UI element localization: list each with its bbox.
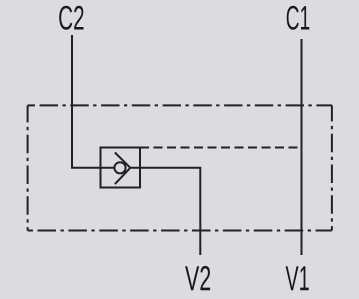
envelope top edge (dash-dot) — [28, 104, 332, 106]
port label V2 — [185, 266, 210, 290]
check valve ball — [114, 162, 125, 173]
port label V1 — [286, 266, 309, 290]
wire check valve to V2 — [130, 168, 200, 255]
port label C2 — [59, 6, 83, 30]
valve envelope (dash-dot boundary) — [28, 105, 332, 230]
wire C1 to V1 — [301, 39, 303, 255]
pilot line (dashed) — [140, 147, 302, 149]
envelope bottom edge (dash-dot) — [28, 230, 332, 232]
envelope left edge (dash-dot) — [27, 105, 29, 230]
wire C2 to check valve — [72, 35, 114, 168]
envelope right edge (dash-dot) — [331, 105, 333, 230]
port label C1 — [287, 6, 310, 30]
check valve body (square) — [101, 148, 141, 188]
check valve seat — [115, 153, 130, 185]
